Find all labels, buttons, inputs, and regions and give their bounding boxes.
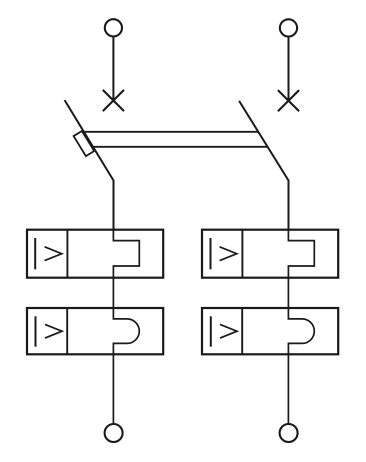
operating mechanism box on left blade	[74, 131, 95, 156]
F3 label > symbol	[45, 324, 62, 338]
mechanical linkage bar lower line	[93, 146, 267, 148]
circuit-breaker function cross X (left pole contact)	[103, 90, 124, 111]
F2 label > symbol	[220, 247, 237, 261]
mechanical linkage bar upper line	[84, 131, 258, 133]
F2 label I bar	[210, 238, 212, 269]
switch blade (left pole moving contact)	[65, 100, 114, 230]
F1 compartment divider	[66, 230, 68, 278]
F2 trip element path (rectangular detour, right pole)	[288, 230, 314, 308]
F3 trip element path (semicircular detour, left pole)	[113, 307, 139, 424]
wire: L2 lead down to fixed contact	[288, 37, 290, 101]
F1 trip element path (rectangular detour, left pole)	[113, 230, 139, 308]
thermal overload release F3 housing (left pole, row 2)	[27, 308, 163, 354]
F4 label I bar	[210, 316, 212, 346]
magnetic overcurrent release F1 housing (left pole, row 1)	[27, 230, 163, 278]
wire: L1 lead down to fixed contact	[112, 37, 114, 101]
F3 compartment divider	[66, 308, 68, 354]
F4 label > symbol	[220, 324, 237, 338]
circuit-breaker function cross X (right pole contact)	[278, 90, 299, 111]
F1 label > symbol	[45, 247, 62, 261]
magnetic overcurrent release F2 housing (right pole, row 1)	[202, 230, 338, 278]
F3 label I bar	[35, 316, 37, 346]
thermal overload release F4 housing (right pole, row 2)	[202, 308, 338, 354]
terminal 2/T1 (bottom left circle)	[105, 424, 123, 442]
terminal 3/L2 (top right circle)	[280, 19, 297, 36]
terminal 4/T2 (bottom right circle)	[280, 424, 298, 442]
F4 trip element path (semicircular detour, right pole)	[288, 307, 314, 424]
F4 compartment divider	[241, 308, 243, 354]
F2 compartment divider	[241, 230, 243, 278]
switch blade (right pole moving contact)	[239, 101, 288, 231]
F1 label I bar	[34, 238, 36, 269]
terminal 1/L1 (top left circle)	[105, 19, 122, 36]
